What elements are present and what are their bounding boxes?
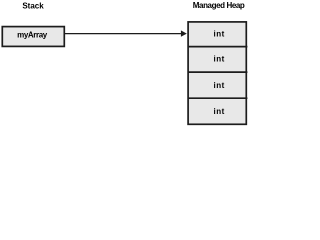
svg-text:int: int [214,81,225,90]
svg-text:myArray: myArray [17,30,48,39]
heap cell divider 3 [188,97,248,99]
box myArray (stack variable) [2,27,64,47]
wire arrow shaft from myArray to heap [65,33,183,35]
heap cell divider 1 [188,46,248,48]
arrowhead [181,30,187,36]
svg-text:int: int [214,55,225,64]
svg-text:int: int [214,29,225,38]
svg-text:Stack: Stack [22,1,44,10]
heap cell divider 2 [188,71,248,73]
svg-text:Managed Heap: Managed Heap [193,1,245,10]
heap array outer box [188,22,246,124]
svg-text:int: int [214,107,225,116]
